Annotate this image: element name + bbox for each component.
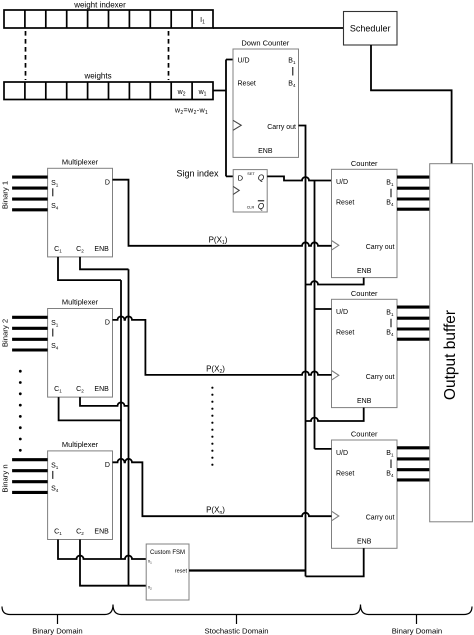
- svg-text:Q: Q: [258, 174, 264, 183]
- svg-text:Binary Domain: Binary Domain: [392, 626, 442, 635]
- svg-text:Q: Q: [258, 202, 264, 211]
- svg-text:D: D: [238, 174, 244, 183]
- svg-text:P(X1): P(X1): [209, 235, 228, 246]
- svg-text:Stochastic Domain: Stochastic Domain: [204, 626, 268, 635]
- svg-text:w2=w2-w1: w2=w2-w1: [174, 106, 208, 116]
- svg-text:Carry out: Carry out: [267, 124, 296, 131]
- svg-text:U/D: U/D: [238, 58, 250, 65]
- svg-text:SET: SET: [247, 172, 255, 176]
- svg-text:P(X2): P(X2): [206, 364, 225, 375]
- svg-text:Binary Domain: Binary Domain: [32, 626, 82, 635]
- svg-text:reset: reset: [175, 569, 188, 575]
- svg-text:CLR: CLR: [247, 206, 255, 210]
- svg-text:weight indexer: weight indexer: [73, 1, 126, 10]
- svg-text:Binary n: Binary n: [0, 464, 9, 492]
- svg-text:P(Xn): P(Xn): [206, 505, 225, 516]
- svg-text:ENB: ENB: [258, 148, 273, 155]
- svg-text:Reset: Reset: [238, 80, 256, 87]
- svg-text:Scheduler: Scheduler: [350, 24, 391, 34]
- svg-text:Binary 1: Binary 1: [0, 181, 9, 209]
- svg-text:Output buffer: Output buffer: [442, 310, 459, 400]
- svg-text:Sign index: Sign index: [176, 169, 219, 179]
- svg-text:Down Counter: Down Counter: [241, 39, 289, 48]
- svg-text:Custom FSM: Custom FSM: [150, 550, 185, 556]
- svg-text:Binary 2: Binary 2: [0, 319, 9, 347]
- svg-text:weights: weights: [83, 72, 111, 81]
